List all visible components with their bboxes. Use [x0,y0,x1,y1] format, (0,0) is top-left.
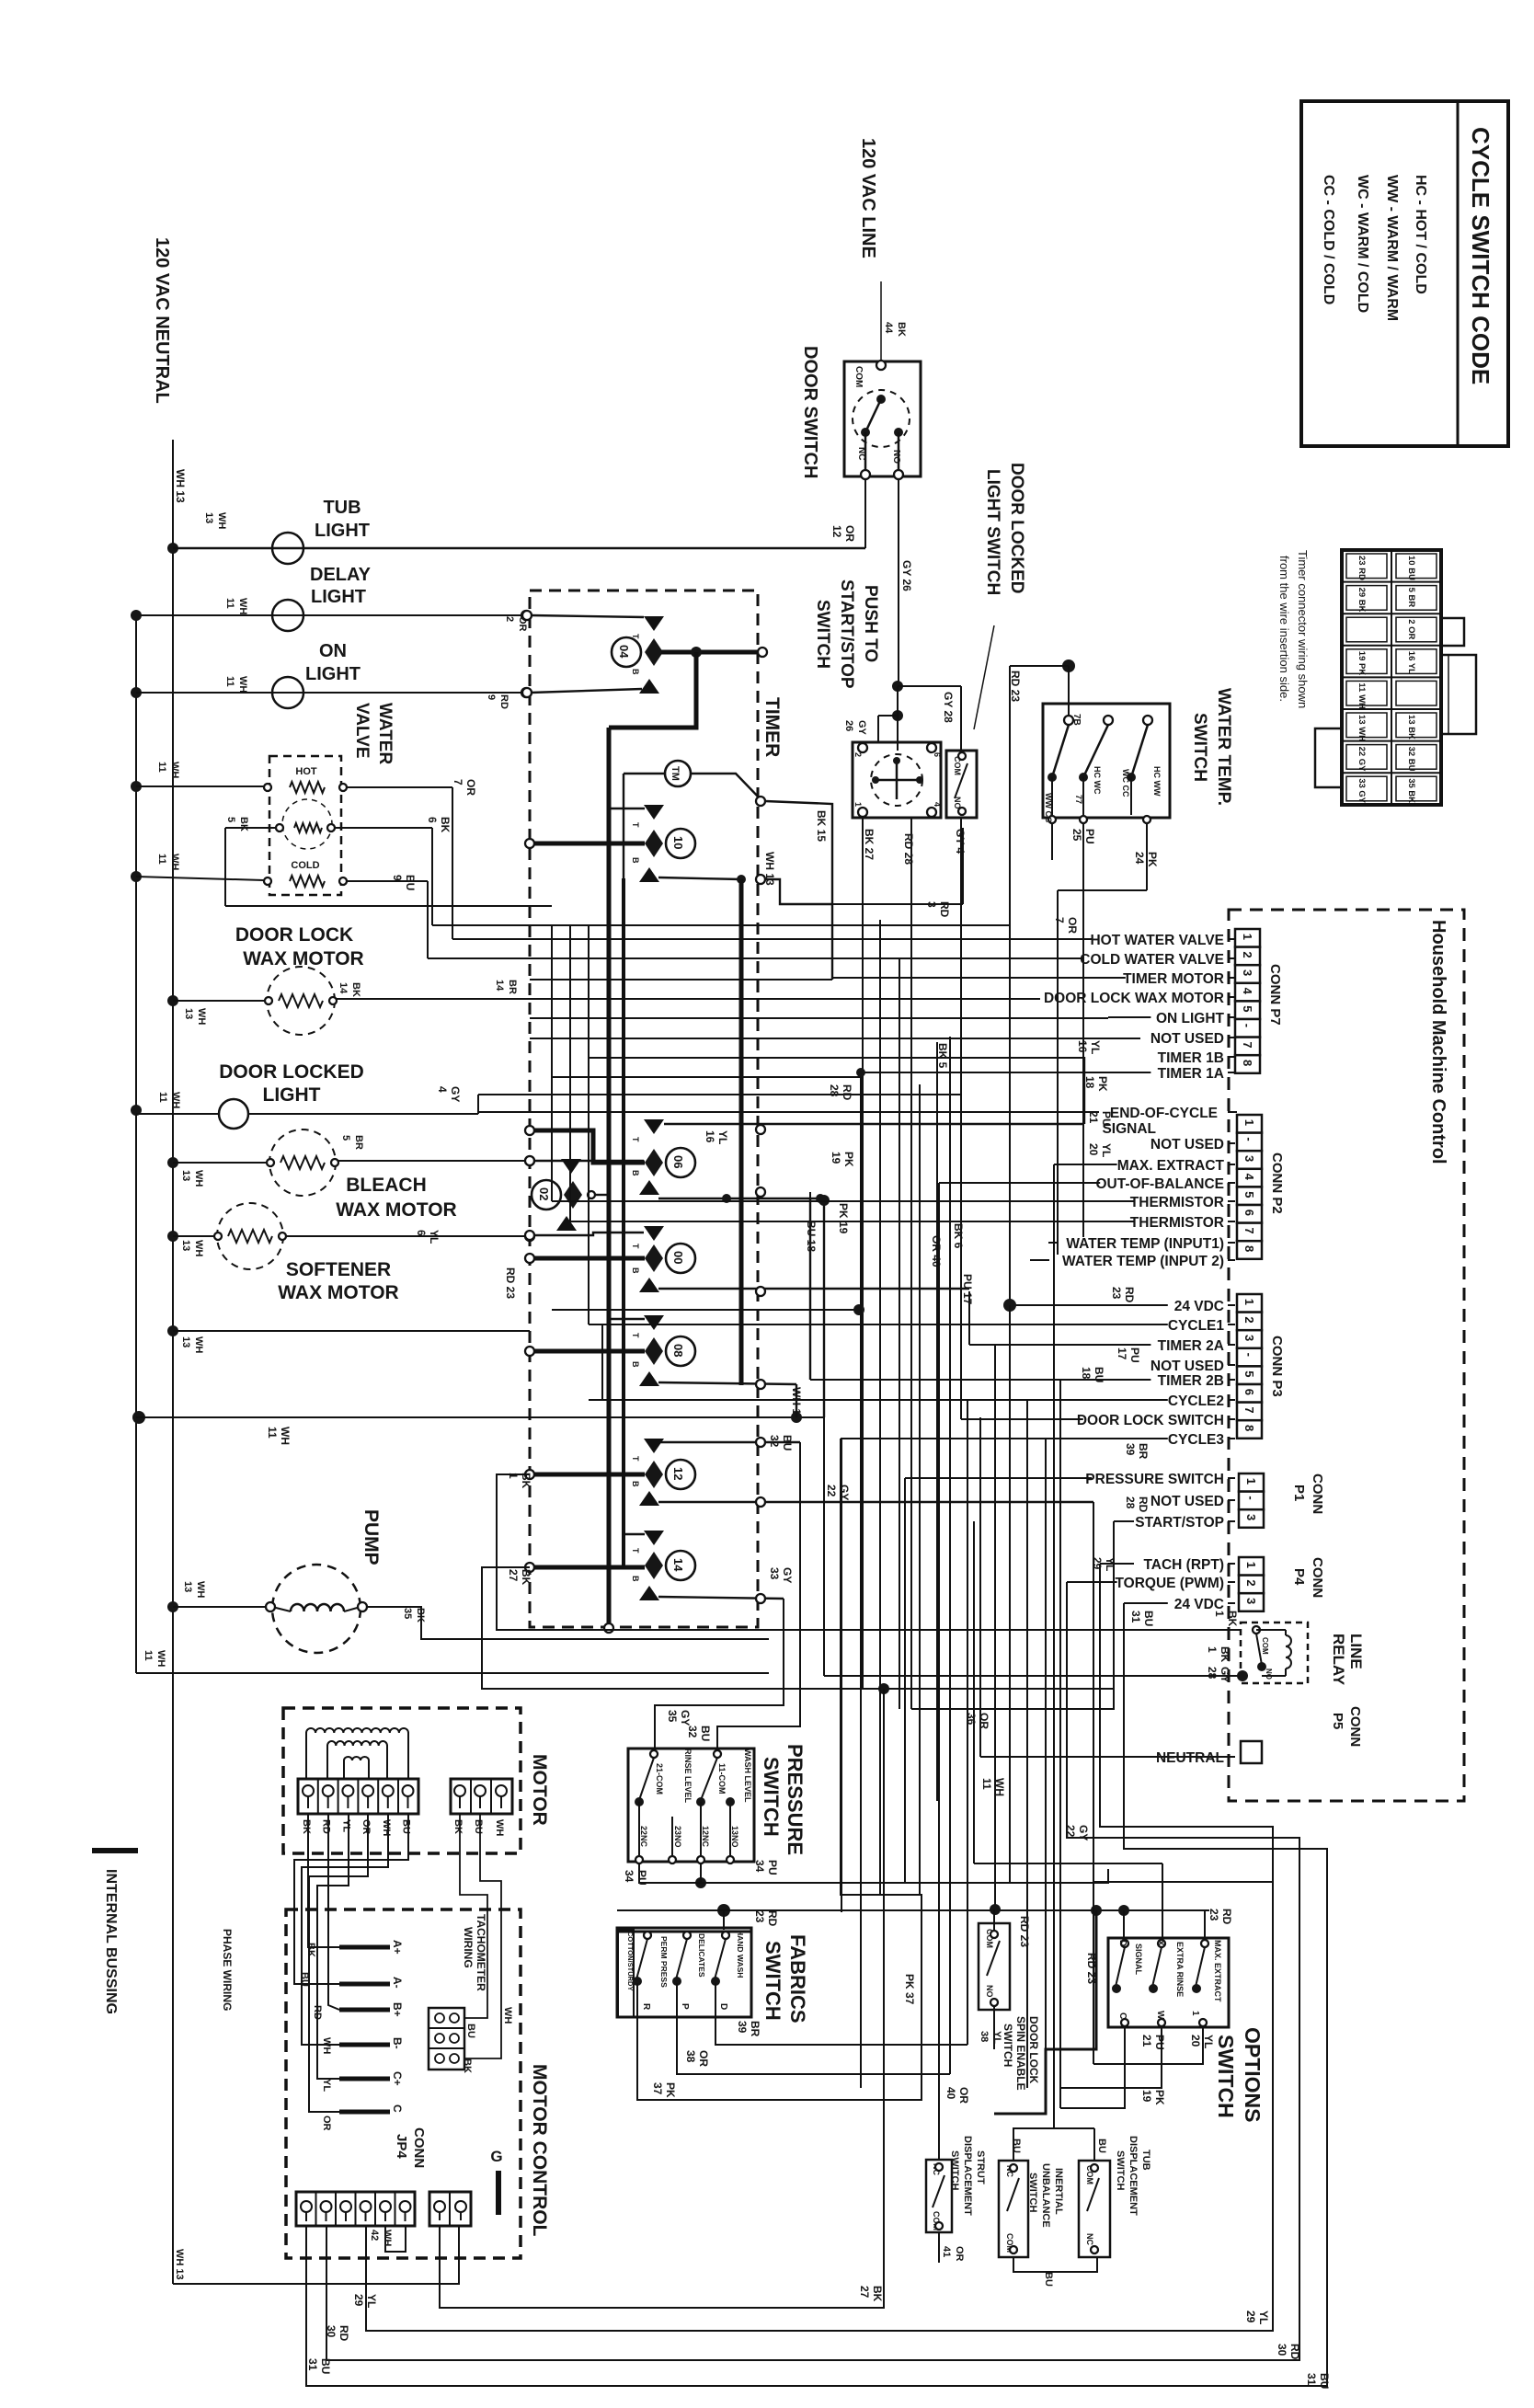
svg-text:C+: C+ [391,2071,404,2086]
svg-text:YL: YL [428,1230,441,1244]
svg-text:7: 7 [1053,917,1066,923]
svg-text:RINSE LEVEL: RINSE LEVEL [683,1749,693,1804]
svg-text:2: 2 [1242,1316,1256,1323]
svg-text:7: 7 [1242,1406,1256,1413]
svg-text:BK 27: BK 27 [863,829,876,860]
svg-text:3: 3 [1244,1598,1258,1604]
svg-text:RD: RD [498,694,509,709]
svg-text:OR: OR [361,1819,372,1835]
svg-text:31: 31 [306,2358,319,2371]
svg-text:13NO: 13NO [730,1826,739,1848]
svg-text:PRESSURE SWITCH: PRESSURE SWITCH [1085,1472,1224,1487]
svg-text:NOT USED: NOT USED [1150,1031,1224,1047]
svg-text:RD 28: RD 28 [902,833,915,865]
svg-text:11: 11 [156,762,167,773]
svg-text:RD: RD [1220,1909,1233,1925]
svg-text:37: 37 [651,2082,664,2095]
svg-text:32: 32 [768,1435,781,1448]
svg-text:BK: BK [462,2058,473,2073]
svg-text:WH 13: WH 13 [174,469,187,503]
svg-text:T: T [631,822,640,828]
svg-text:30: 30 [1276,2344,1288,2356]
svg-text:Household Machine Control: Household Machine Control [1428,920,1448,1164]
svg-text:TUB: TUB [323,498,361,518]
svg-text:9: 9 [486,694,497,700]
svg-text:14: 14 [671,1558,685,1572]
svg-text:T: T [631,1137,640,1142]
svg-text:21-COM: 21-COM [655,1763,664,1795]
svg-text:RD 23: RD 23 [1085,1953,1098,1984]
svg-text:3: 3 [1242,1155,1256,1162]
svg-text:INTERNAL BUSSING: INTERNAL BUSSING [103,1869,119,2014]
svg-text:OR: OR [321,2116,332,2131]
svg-text:HOT WATER VALVE: HOT WATER VALVE [1090,933,1224,948]
svg-text:PU: PU [1153,2035,1166,2050]
svg-text:P5: P5 [1330,1713,1345,1729]
svg-text:40: 40 [944,2087,957,2100]
svg-text:PK: PK [1153,2090,1166,2105]
svg-text:WH: WH [382,2230,393,2246]
svg-text:06: 06 [671,1155,685,1168]
svg-text:OUT-OF-BALANCE: OUT-OF-BALANCE [1096,1176,1225,1192]
svg-text:BU: BU [473,1819,484,1834]
svg-text:ON: ON [319,641,347,661]
svg-text:RD 23: RD 23 [504,1267,517,1299]
svg-text:PUSH TO: PUSH TO [861,585,880,662]
svg-text:LIGHT: LIGHT [315,521,370,541]
svg-text:120 VAC NEUTRAL: 120 VAC NEUTRAL [152,237,172,404]
svg-text:29: 29 [352,2294,365,2307]
svg-text:SWITCH: SWITCH [813,600,832,669]
svg-text:-: - [1244,1496,1258,1499]
svg-text:WATER TEMP (INPUT 2): WATER TEMP (INPUT 2) [1062,1254,1224,1269]
svg-text:DELICATES: DELICATES [697,1933,706,1978]
svg-text:BK: BK [415,1608,426,1623]
svg-text:29: 29 [1244,2311,1257,2323]
svg-text:DOOR LOCKED: DOOR LOCKED [219,1061,364,1083]
svg-text:OR: OR [954,2246,965,2262]
svg-text:44: 44 [883,322,894,334]
svg-text:2 OR: 2 OR [1406,619,1416,639]
svg-text:THERMISTOR: THERMISTOR [1130,1215,1224,1231]
svg-text:GY: GY [449,1086,462,1102]
svg-text:WH: WH [237,676,248,693]
svg-text:BK: BK [439,817,452,833]
svg-text:02: 02 [537,1187,551,1200]
svg-text:T: T [631,1456,640,1462]
svg-text:BK: BK [305,1943,316,1957]
svg-text:WC CC: WC CC [1121,769,1130,797]
svg-text:OR: OR [1066,917,1079,934]
svg-text:32 BU: 32 BU [1406,747,1416,772]
svg-text:TACH (RPT): TACH (RPT) [1143,1557,1224,1573]
svg-text:13: 13 [180,1170,191,1181]
svg-text:GY: GY [781,1567,794,1583]
svg-text:77: 77 [1074,795,1083,804]
svg-text:BR: BR [353,1135,364,1150]
svg-text:6: 6 [933,752,942,757]
svg-text:PU: PU [766,1860,779,1875]
svg-text:23 RD: 23 RD [1357,556,1367,580]
svg-text:PK: PK [842,1152,855,1167]
svg-text:THERMISTOR: THERMISTOR [1130,1195,1224,1210]
svg-text:24: 24 [1133,852,1146,865]
svg-text:WH: WH [279,1427,292,1445]
svg-text:BU: BU [465,2024,476,2038]
svg-text:4: 4 [1242,1174,1256,1181]
svg-text:WATER TEMP.: WATER TEMP. [1214,688,1233,806]
svg-text:WH: WH [169,762,180,778]
svg-text:T: T [631,1548,640,1554]
svg-text:T: T [631,634,640,639]
svg-text:SWITCH: SWITCH [949,2150,960,2190]
svg-text:21: 21 [1140,2035,1153,2047]
svg-text:STRUT: STRUT [975,2150,986,2184]
svg-text:LIGHT: LIGHT [311,587,366,607]
svg-text:WH: WH [502,2007,513,2024]
svg-text:11: 11 [224,676,235,687]
svg-text:-: - [1242,1353,1256,1357]
svg-text:MOTOR CONTROL: MOTOR CONTROL [529,2064,550,2237]
svg-text:HC - HOT / COLD: HC - HOT / COLD [1413,175,1428,294]
svg-text:33: 33 [768,1567,781,1580]
svg-text:28: 28 [1206,1667,1219,1680]
svg-text:RD 23: RD 23 [1018,1916,1031,1947]
svg-text:WH: WH [196,1008,207,1025]
svg-text:BK: BK [301,1819,312,1834]
svg-text:FABRICS: FABRICS [786,1934,809,2024]
svg-text:CC - COLD / COLD: CC - COLD / COLD [1321,175,1336,304]
svg-text:PUMP: PUMP [361,1509,382,1565]
svg-text:YL: YL [716,1130,729,1144]
svg-text:from the wire insertion side.: from the wire insertion side. [1277,556,1291,702]
svg-text:WH: WH [170,1092,181,1108]
svg-text:BK: BK [1226,1611,1239,1627]
svg-text:B: B [631,669,640,675]
svg-text:DOOR SWITCH: DOOR SWITCH [800,346,820,478]
svg-text:P4: P4 [1291,1568,1307,1586]
svg-text:41: 41 [941,2246,952,2257]
svg-text:BK 15: BK 15 [815,810,828,842]
svg-text:BU: BU [319,2358,332,2374]
svg-text:4: 4 [1241,988,1254,995]
svg-text:11: 11 [980,1778,993,1790]
svg-text:WAX MOTOR: WAX MOTOR [336,1199,456,1221]
svg-text:35 BK: 35 BK [1406,778,1416,803]
svg-text:RD 23: RD 23 [1009,671,1022,702]
svg-text:1: 1 [1190,2011,1200,2016]
svg-text:18: 18 [1080,1367,1093,1380]
svg-text:1: 1 [853,802,863,807]
svg-text:T: T [631,1333,640,1338]
svg-text:Timer connector wiring shown: Timer connector wiring shown [1296,550,1310,708]
svg-text:WIRING: WIRING [462,1927,475,1968]
svg-text:-: - [1242,1137,1256,1141]
svg-text:BU: BU [1318,2373,1331,2389]
svg-text:B: B [631,1361,640,1368]
svg-text:TORQUE (PWM): TORQUE (PWM) [1115,1576,1224,1591]
svg-text:C: C [1117,2012,1128,2019]
svg-text:WATER: WATER [375,703,395,764]
svg-text:COM: COM [853,366,864,387]
svg-text:CYCLE3: CYCLE3 [1168,1432,1225,1448]
svg-text:PRESSURE: PRESSURE [784,1744,807,1855]
svg-text:11: 11 [156,854,167,865]
svg-text:33 GY: 33 GY [1357,778,1367,804]
svg-text:WW CC: WW CC [1044,793,1053,823]
svg-text:4: 4 [436,1086,449,1093]
svg-text:GY 28: GY 28 [942,692,955,723]
svg-text:HAND WASH: HAND WASH [736,1930,745,1978]
svg-text:22NC: 22NC [639,1826,648,1848]
svg-text:PK: PK [664,2082,677,2098]
svg-text:23: 23 [1110,1287,1123,1300]
svg-text:TIMER 2A: TIMER 2A [1158,1338,1224,1354]
svg-text:TIMER: TIMER [761,697,783,757]
svg-text:TUB: TUB [1140,2150,1151,2171]
svg-text:7: 7 [452,779,464,785]
svg-text:EXTRA RINSE: EXTRA RINSE [1175,1942,1185,1997]
svg-text:BK 6: BK 6 [952,1223,965,1249]
svg-text:X: X [1155,1940,1165,1946]
svg-text:35: 35 [402,1608,413,1619]
svg-text:2: 2 [1241,951,1254,957]
svg-text:CONN P7: CONN P7 [1267,964,1283,1026]
svg-text:8: 8 [1241,1060,1254,1066]
svg-text:SWITCH: SWITCH [1027,2173,1038,2212]
svg-text:SWITCH: SWITCH [1190,713,1209,782]
svg-text:CONN P3: CONN P3 [1269,1336,1285,1397]
svg-text:18: 18 [1083,1076,1096,1089]
svg-text:23NO: 23NO [673,1826,682,1848]
svg-text:BK: BK [896,322,907,337]
svg-text:5: 5 [340,1135,351,1141]
svg-text:11: 11 [224,598,235,609]
svg-text:PU: PU [1100,1111,1113,1127]
svg-text:20: 20 [1087,1143,1100,1156]
svg-text:20: 20 [1189,2035,1202,2047]
svg-text:P: P [680,2003,690,2010]
svg-text:SIGNAL: SIGNAL [1134,1944,1143,1976]
svg-text:10: 10 [671,836,685,849]
svg-text:B+: B+ [391,2002,404,2017]
svg-text:START/STOP: START/STOP [1135,1515,1224,1531]
svg-text:WAX MOTOR: WAX MOTOR [243,948,363,969]
svg-text:RD: RD [766,1910,779,1927]
svg-text:OR: OR [957,2087,970,2104]
svg-text:WH: WH [494,1819,505,1836]
svg-text:P1: P1 [1291,1485,1307,1501]
svg-text:22 GY: 22 GY [1357,747,1367,773]
svg-text:BU: BU [1096,2139,1107,2153]
svg-text:BU: BU [404,875,417,890]
svg-text:B: B [631,857,640,864]
svg-text:BK: BK [871,2286,884,2302]
svg-text:COLD: COLD [291,860,319,871]
svg-text:6: 6 [426,817,439,823]
svg-text:HOT: HOT [295,766,317,777]
svg-text:WAX MOTOR: WAX MOTOR [278,1282,398,1303]
svg-text:5: 5 [1241,1005,1254,1012]
svg-text:39: 39 [1124,1443,1137,1456]
svg-text:NC: NC [1085,2233,1094,2245]
svg-text:R: R [641,2003,651,2011]
svg-text:CONN: CONN [411,2127,427,2168]
svg-text:MAX. EXTRACT: MAX. EXTRACT [1213,1940,1222,2002]
svg-text:BK: BK [1219,1646,1231,1663]
svg-text:08: 08 [671,1344,685,1357]
svg-text:PK 37: PK 37 [903,1974,916,2005]
svg-text:HC WW: HC WW [1152,766,1162,797]
svg-text:B: B [631,1576,640,1582]
svg-text:BLEACH: BLEACH [346,1175,427,1196]
svg-text:WH: WH [193,1240,204,1256]
svg-text:7: 7 [1242,1227,1256,1233]
svg-text:6: 6 [415,1230,428,1236]
svg-text:31: 31 [1305,2373,1318,2386]
svg-text:1: 1 [1242,1119,1256,1126]
svg-text:PU: PU [1128,1347,1141,1363]
svg-text:DELAY: DELAY [310,565,372,585]
svg-text:00: 00 [671,1251,685,1264]
svg-text:WH: WH [195,1581,206,1598]
svg-text:YL: YL [1202,2035,1215,2048]
svg-text:JP4: JP4 [394,2134,409,2159]
svg-text:14: 14 [338,982,349,994]
svg-text:2: 2 [853,752,863,757]
svg-text:24 VDC: 24 VDC [1174,1597,1224,1612]
svg-text:PK 19: PK 19 [837,1203,850,1234]
svg-text:GY: GY [1219,1667,1231,1682]
svg-text:04: 04 [617,645,631,659]
svg-text:YL: YL [1257,2311,1270,2324]
svg-text:38: 38 [684,2050,697,2063]
svg-text:BR: BR [1137,1443,1150,1460]
svg-text:120 VAC LINE: 120 VAC LINE [858,138,878,258]
svg-text:DISPLACEMENT: DISPLACEMENT [962,2136,973,2216]
svg-text:UNBALANCE: UNBALANCE [1040,2163,1051,2228]
svg-text:-: - [1241,1024,1254,1027]
svg-text:NOT USED: NOT USED [1150,1494,1224,1509]
svg-text:OR: OR [464,779,477,796]
svg-text:CYCLE SWITCH CODE: CYCLE SWITCH CODE [1467,127,1494,384]
svg-text:27: 27 [858,2286,871,2299]
svg-text:NEUTRAL: NEUTRAL [1156,1750,1224,1766]
svg-text:CYCLE1: CYCLE1 [1168,1318,1225,1334]
svg-text:G: G [490,2148,502,2165]
svg-text:GY: GY [679,1710,692,1726]
svg-text:BU: BU [1093,1367,1105,1382]
svg-text:B: B [631,1170,640,1176]
svg-text:11 WH: 11 WH [1357,682,1367,709]
svg-text:32: 32 [686,1726,699,1738]
svg-text:6: 6 [1242,1210,1256,1216]
svg-text:SPIN ENABLE: SPIN ENABLE [1014,2016,1027,2091]
svg-text:C: C [391,2104,404,2113]
svg-text:27: 27 [507,1569,520,1582]
svg-text:11: 11 [157,1092,168,1103]
svg-text:SWITCH: SWITCH [1002,2024,1014,2067]
svg-text:5 BR: 5 BR [1406,588,1416,608]
svg-text:TM: TM [670,766,681,781]
svg-text:3: 3 [1241,969,1254,976]
svg-text:DOOR LOCK SWITCH: DOOR LOCK SWITCH [1077,1413,1224,1428]
svg-text:2: 2 [1244,1579,1258,1586]
svg-text:1: 1 [1242,1299,1256,1305]
svg-text:12: 12 [830,525,843,538]
svg-text:WATER TEMP (INPUT1): WATER TEMP (INPUT1) [1066,1236,1224,1252]
svg-text:BU: BU [781,1435,794,1451]
svg-text:YL: YL [321,2079,332,2092]
svg-text:17: 17 [1116,1347,1128,1360]
svg-text:B-: B- [391,2037,404,2049]
svg-text:NOT USED: NOT USED [1150,1359,1224,1374]
svg-text:BK: BK [520,1569,532,1586]
svg-text:GY: GY [856,720,867,736]
svg-text:SWITCH: SWITCH [1214,2035,1238,2118]
svg-text:13: 13 [180,1240,191,1251]
svg-text:PU: PU [1083,829,1096,844]
svg-text:WH: WH [237,598,248,614]
svg-text:COM: COM [1261,1637,1269,1655]
svg-text:DOOR LOCKED: DOOR LOCKED [1007,463,1026,594]
svg-text:YL: YL [991,2031,1002,2044]
svg-text:SWITCH: SWITCH [761,1941,784,2021]
svg-text:TIMER 1B: TIMER 1B [1158,1050,1224,1066]
svg-text:13 BK: 13 BK [1406,715,1416,740]
svg-text:CONN: CONN [1310,1557,1325,1598]
svg-text:GY 4: GY 4 [954,829,967,854]
svg-text:1: 1 [1244,1478,1258,1485]
svg-text:PK: PK [1096,1076,1109,1092]
svg-text:OR: OR [978,1713,990,1729]
svg-text:11-COM: 11-COM [717,1763,727,1795]
svg-text:OR: OR [843,525,856,542]
svg-text:7: 7 [1241,1041,1254,1048]
svg-text:B: B [631,1267,640,1274]
svg-text:22: 22 [1064,1825,1077,1838]
svg-text:BU 18: BU 18 [805,1221,818,1252]
svg-text:D: D [718,2003,728,2010]
svg-text:TACHOMETER: TACHOMETER [475,1914,487,1991]
svg-text:A-: A- [391,1977,404,1989]
svg-text:RD: RD [1137,1496,1150,1513]
svg-text:23: 23 [1208,1909,1220,1921]
svg-text:CYCLE2: CYCLE2 [1168,1393,1224,1409]
svg-text:PK: PK [1146,852,1159,867]
svg-text:DOOR LOCK: DOOR LOCK [1027,2016,1040,2084]
svg-text:16: 16 [1076,1040,1089,1053]
svg-text:W: W [1155,2011,1165,2020]
svg-text:VALVE: VALVE [352,703,372,759]
svg-text:YL: YL [340,1819,351,1832]
svg-text:1: 1 [1241,934,1254,940]
svg-text:RD: RD [1123,1287,1136,1303]
svg-text:BR: BR [507,980,518,994]
svg-text:DOOR LOCK WAX MOTOR: DOOR LOCK WAX MOTOR [1044,991,1224,1006]
svg-text:4: 4 [933,802,942,807]
svg-text:5: 5 [1242,1370,1256,1377]
svg-text:PHASE WIRING: PHASE WIRING [221,1929,234,2011]
svg-text:GY 26: GY 26 [900,560,913,591]
svg-text:35: 35 [666,1710,679,1723]
svg-text:WH: WH [381,1819,392,1836]
svg-text:START/STOP: START/STOP [837,579,856,689]
svg-text:HC WC: HC WC [1093,766,1102,795]
svg-text:38: 38 [979,2031,990,2042]
svg-text:24 VDC: 24 VDC [1174,1299,1224,1314]
svg-text:BK: BK [238,817,249,831]
